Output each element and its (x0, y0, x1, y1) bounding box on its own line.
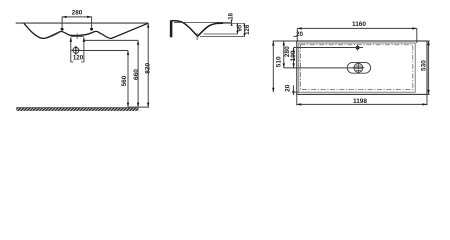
svg-text:510: 510 (276, 56, 283, 67)
dim 1160 line (297, 27, 417, 29)
floor thin line (128, 106, 149, 108)
dim 120: bottom feet (71, 61, 74, 63)
faucet hole (356, 46, 360, 50)
dim 1198 ext right (426, 94, 428, 105)
svg-text:120: 120 (73, 55, 84, 62)
svg-text:95: 95 (238, 24, 244, 31)
extension line to 660 dim (85, 39, 139, 41)
dim 1198 line (297, 103, 427, 105)
section profile (thick) (172, 21, 224, 36)
dim 530 ext top (427, 40, 430, 42)
svg-text:660: 660 (133, 69, 140, 80)
basin lip inner line left (46, 33, 59, 39)
faucet extension line (294, 47, 363, 49)
drain oval (347, 62, 370, 73)
svg-text:1198: 1198 (353, 98, 367, 105)
svg-text:190: 190 (290, 50, 297, 61)
svg-text:1160: 1160 (352, 21, 366, 28)
dim 560 line (127, 51, 129, 108)
dim 280: dimension line (62, 16, 92, 18)
wall line (16, 22, 149, 24)
centerline tick (76, 33, 78, 38)
dim 120: left extension with up arrow (70, 37, 72, 62)
svg-text:18: 18 (228, 12, 234, 19)
dim 1198 ext left (296, 94, 298, 105)
dim 510 line (272, 41, 274, 92)
extension line from drain to 560 dim (79, 50, 128, 52)
body bottom extension line (126) (200, 36, 245, 38)
dim 18 line (231, 20, 233, 25)
svg-text:20: 20 (296, 32, 303, 38)
dim 126 line (243, 23, 245, 36)
faucet hole dot left (61, 28, 64, 31)
dim 280 line (plan) (283, 41, 285, 68)
dim 820 line (147, 23, 149, 107)
dim 120: right extension with up arrow (83, 37, 85, 62)
dim 20 top tick (294, 35, 298, 37)
dim 1160 extension left (296, 28, 298, 41)
hidden cabinet dash-dot rectangle (300, 45, 412, 90)
svg-text:280: 280 (72, 10, 83, 17)
dim 530 line (428, 41, 430, 95)
dim 280: extension lines (61, 17, 63, 28)
floor hatch band (16, 108, 138, 111)
drain extension line (284, 67, 354, 69)
dim 190 line (293, 48, 295, 68)
dim 530 ext bottom (427, 93, 430, 95)
back rim top reference line (174, 21, 232, 23)
dim 20 bottom line (292, 85, 294, 95)
drain circle hatched (354, 63, 363, 72)
dim 280: arrowheads (62, 16, 92, 18)
inner rim rectangle (299, 43, 415, 92)
outer rectangle (297, 41, 427, 94)
dim 1160 extension right (416, 28, 418, 43)
basin lip inner line right (98, 33, 108, 38)
bowl centerline tick (196, 33, 198, 40)
dim 20 bottom ext lines (292, 91, 299, 93)
rim top extension to dims (223, 22, 244, 24)
svg-text:530: 530 (421, 60, 428, 71)
drain circle with crosshair (73, 47, 79, 53)
svg-text:126: 126 (245, 24, 251, 35)
svg-text:820: 820 (144, 62, 151, 73)
faucet hole dot right (90, 28, 93, 31)
dim 510 extension top (273, 40, 297, 42)
svg-text:20: 20 (284, 84, 291, 92)
apron front edge bar (170, 20, 173, 37)
dim 660 line (137, 40, 139, 107)
svg-text:560: 560 (121, 75, 128, 86)
dim 120: dimension bar (71, 36, 84, 38)
bowl bottom extension line (95) (204, 33, 238, 35)
dim 95 line (236, 23, 238, 34)
basin front profile (24, 23, 148, 38)
